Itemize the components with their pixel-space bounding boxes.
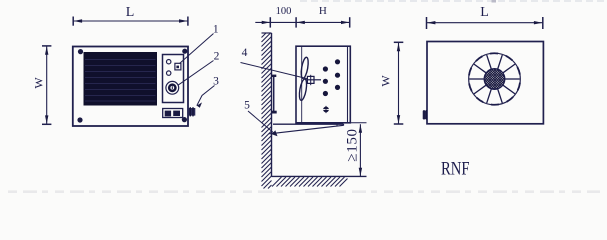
svg-text:1: 1: [213, 24, 219, 36]
rear view: cable gland: [423, 110, 428, 120]
rear view: fan outer ring: [469, 53, 521, 105]
rear view: fan spokes: [469, 55, 520, 103]
svg-text:100: 100: [276, 6, 292, 17]
side view: air deflector item 5: [270, 124, 344, 134]
dimension W (rear view): [379, 42, 404, 124]
front view: thermostat knob item 2: [166, 81, 179, 94]
front view: switch item 1: [175, 63, 181, 70]
front view: enclosure outline: [73, 47, 188, 127]
front view: corner screw top-left: [78, 49, 83, 54]
side view: unit outline: [296, 46, 350, 123]
rear view: fan hub crosshatched: [484, 69, 505, 90]
side view: fan impeller item 4: [298, 57, 321, 101]
front view: indicator lamp lower: [167, 71, 171, 75]
leader line 1: [180, 34, 214, 64]
side view: wall hatching: [262, 33, 272, 189]
side view: wall bracket: [272, 75, 277, 114]
rear view: fan blade tip arcs: [469, 53, 520, 105]
leader line 3: [197, 86, 215, 108]
side view: fastener dots column 2: [335, 59, 340, 90]
dimension W (front view): [32, 46, 52, 124]
artifact: cropped text smear at bottom edge: [8, 190, 600, 193]
front view: corner screw top-right: [182, 49, 187, 54]
svg-text:≥150: ≥150: [345, 128, 361, 161]
front view: corner screw bottom-right: [182, 117, 187, 122]
front view: cable gland item 3: [188, 107, 195, 116]
dimension >=150 (side view): [345, 124, 363, 176]
svg-text:4: 4: [242, 47, 248, 59]
svg-text:H: H: [319, 5, 327, 17]
front view: control panel: [163, 55, 184, 103]
svg-text:W: W: [32, 77, 46, 89]
svg-text:RNF: RNF: [441, 159, 470, 180]
leader line 2: [178, 61, 214, 86]
svg-text:L: L: [480, 5, 489, 20]
front view: indicator lamp upper: [167, 60, 171, 64]
dimension L (front view): [73, 5, 188, 26]
side view: wall top cap: [262, 32, 272, 34]
side view: unit inner right line: [347, 46, 349, 123]
svg-text:2: 2: [214, 51, 220, 63]
svg-text:L: L: [126, 5, 135, 20]
leader line 4: [241, 63, 308, 79]
side view: wall face line: [271, 33, 273, 176]
rear view: enclosure outline: [427, 42, 543, 124]
front view: terminal label plate: [163, 109, 183, 118]
side view: bottom mounting plate: [273, 123, 344, 125]
side view: fan mounting plate line: [301, 46, 303, 123]
dimension 100 (side view): [255, 6, 296, 28]
dimension H (side view): [296, 5, 350, 28]
side view: floor hatching: [272, 177, 348, 187]
front view: intake grille: [84, 53, 157, 106]
front view: corner screw bottom-left: [77, 117, 82, 122]
dimension L (rear view): [427, 5, 543, 29]
side view: bottom screw with cross: [322, 106, 329, 113]
artifact: cropped text smear at top edge: [300, 0, 607, 3]
side view: fastener dots column 1: [323, 66, 328, 96]
side view: floor line: [272, 175, 367, 177]
svg-text:3: 3: [213, 76, 219, 88]
side view: dimension extension line bottom: [350, 122, 366, 124]
svg-text:W: W: [379, 75, 393, 87]
svg-text:5: 5: [244, 100, 250, 112]
leader line 5: [248, 111, 278, 136]
